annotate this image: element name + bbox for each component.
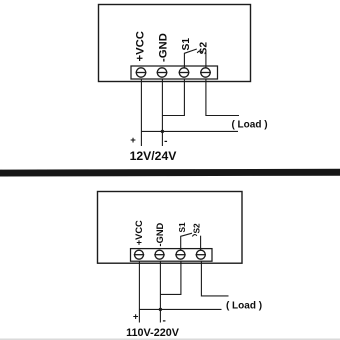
switch SW2 between S1 and S2 xyxy=(181,233,201,250)
wire -GND to supply - xyxy=(161,79,163,146)
svg-text:S2: S2 xyxy=(198,42,209,55)
junction dot at -GND / return crossing xyxy=(159,308,162,311)
wire load return to +VCC wire xyxy=(141,130,238,132)
svg-text:-: - xyxy=(164,136,167,147)
svg-text:+VCC: +VCC xyxy=(135,31,147,61)
wires below top terminals xyxy=(141,79,239,146)
svg-text:-: - xyxy=(163,315,166,326)
wire +VCC to supply + xyxy=(140,79,142,146)
terminal screw 1 (+VCC) xyxy=(134,250,144,259)
svg-text:12V/24V: 12V/24V xyxy=(130,149,178,163)
junction dot at -GND / return crossing xyxy=(161,130,164,133)
wire S2 down and right to load xyxy=(201,262,228,296)
svg-text:( Load ): ( Load ) xyxy=(226,301,262,312)
terminal block TB1 xyxy=(131,66,218,79)
svg-text:S1: S1 xyxy=(181,38,192,51)
wires below bottom terminals xyxy=(139,262,228,323)
faint photo bottom edge xyxy=(0,338,340,340)
switch SW1 between S1 and S2 xyxy=(184,49,206,68)
terminal screw 3 (S1) xyxy=(179,68,190,77)
svg-text:+VCC: +VCC xyxy=(134,220,144,245)
wire S1 down and left to -GND wire xyxy=(162,79,184,116)
wire load return to +VCC wire xyxy=(139,308,221,310)
svg-text:S2: S2 xyxy=(192,223,202,234)
svg-text:-GND: -GND xyxy=(155,222,165,246)
terminal screw 2 (-GND) xyxy=(157,68,168,77)
separator bar xyxy=(0,169,340,177)
terminal screw 2 (-GND) xyxy=(154,250,164,259)
terminal screw 4 (S2) xyxy=(196,250,206,259)
svg-text:+: + xyxy=(133,312,139,323)
controller box U1 xyxy=(99,5,251,82)
terminal block TB2 xyxy=(131,249,213,262)
svg-text:S1: S1 xyxy=(177,222,187,233)
wire -GND to supply - xyxy=(159,262,161,323)
svg-text:110V-220V: 110V-220V xyxy=(126,327,180,339)
svg-text:-GND: -GND xyxy=(157,33,169,62)
wire +VCC to supply + xyxy=(138,262,140,323)
controller box U2 xyxy=(98,192,243,264)
terminal screw 3 (S1) xyxy=(175,250,185,259)
svg-text:+: + xyxy=(130,135,136,146)
wire S1 down and left to -GND wire xyxy=(160,262,181,295)
terminal screw 4 (S2) xyxy=(200,68,211,77)
wire S2 down and right to load xyxy=(206,79,239,116)
terminal screw 1 (+VCC) xyxy=(136,68,147,77)
svg-text:( Load ): ( Load ) xyxy=(231,120,267,131)
